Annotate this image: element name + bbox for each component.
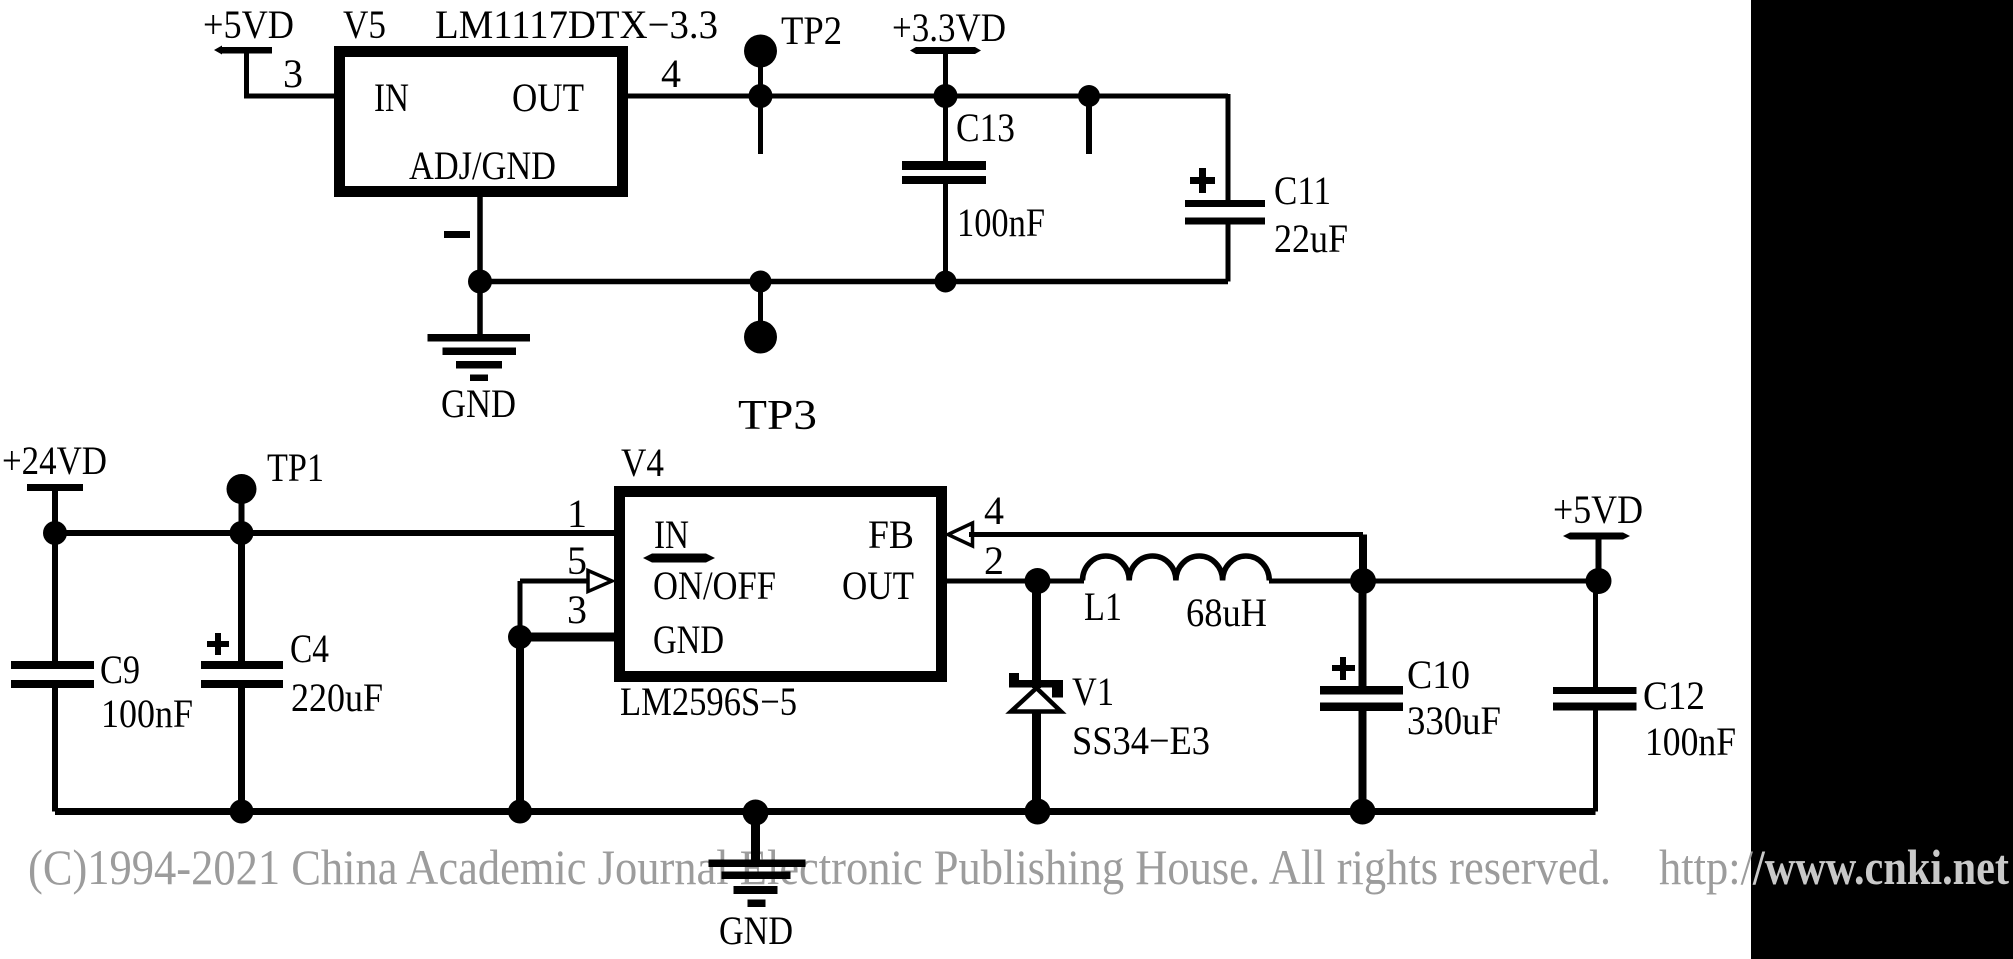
wire pin4 OUT xyxy=(628,94,1228,99)
power +5VD (right) xyxy=(1563,533,1630,582)
svg-text:3: 3 xyxy=(283,51,303,96)
power +3.3VD xyxy=(910,47,981,96)
wire node to +5VD node xyxy=(1363,579,1599,584)
junction ADJ/ground xyxy=(468,270,492,294)
svg-text:C10: C10 xyxy=(1407,652,1470,697)
capacitor C12 xyxy=(1553,581,1637,812)
junction C10 bottom xyxy=(1350,799,1376,825)
svg-text:1: 1 xyxy=(567,491,587,536)
svg-text:100nF: 100nF xyxy=(957,200,1045,245)
IN underline bar xyxy=(643,554,715,563)
testpoint TP1 xyxy=(227,474,257,533)
svg-text:IN: IN xyxy=(654,512,689,557)
labels bottom circuit xyxy=(2,438,1736,953)
svg-text:C11: C11 xyxy=(1274,168,1331,213)
junction +3.3VD node xyxy=(934,84,958,108)
diode V1 SS34 (schottky) xyxy=(1009,581,1063,812)
svg-text:IN: IN xyxy=(374,75,409,120)
arrow pin4 FB xyxy=(948,523,973,546)
svg-text:100nF: 100nF xyxy=(1645,719,1736,764)
labels top circuit xyxy=(203,2,1348,439)
wire pin3 xyxy=(244,94,339,99)
junction C13 bottom xyxy=(935,271,957,293)
svg-text:ADJ/GND: ADJ/GND xyxy=(409,143,556,188)
svg-text:GND: GND xyxy=(653,617,724,662)
junction C4 bottom xyxy=(230,800,254,824)
svg-text:100nF: 100nF xyxy=(101,691,193,736)
converter V4 box xyxy=(620,492,942,677)
power +5VD (top left) xyxy=(214,46,272,97)
svg-text:+3.3VD: +3.3VD xyxy=(892,5,1006,50)
wire FB feedback xyxy=(969,532,1363,537)
svg-text:22uF: 22uF xyxy=(1274,216,1348,261)
junction TP1/C4 xyxy=(230,521,254,545)
ground GND (bottom circuit) xyxy=(709,813,806,908)
stub node on OUT rail xyxy=(1078,85,1100,154)
svg-text:TP1: TP1 xyxy=(267,445,324,490)
svg-text:C9: C9 xyxy=(100,647,140,692)
junction +5VD/C12 xyxy=(1586,568,1612,594)
svg-text:C4: C4 xyxy=(290,626,329,671)
wire pin3 GND xyxy=(520,633,614,642)
ground rail (top circuit) xyxy=(480,279,1228,285)
testpoint TP3 xyxy=(744,282,777,354)
svg-text:(C)1994-2021 China Academic Jo: (C)1994-2021 China Academic Journal Elec… xyxy=(28,839,1611,895)
svg-text:SS34−E3: SS34−E3 xyxy=(1072,718,1210,763)
junction TP2/OUT xyxy=(749,84,773,108)
wire FB corner vertical xyxy=(1359,535,1367,582)
svg-text:FB: FB xyxy=(868,512,914,557)
svg-text:GND: GND xyxy=(441,381,516,426)
capacitor C11 (electrolytic) xyxy=(1185,168,1265,282)
junction pin3 node xyxy=(508,625,532,649)
svg-text:220uF: 220uF xyxy=(291,675,383,720)
wire pin5 ON/OFF xyxy=(520,579,588,584)
svg-text:68uH: 68uH xyxy=(1186,590,1267,635)
wire corner to C11 xyxy=(1226,94,1231,200)
junction GND node xyxy=(743,800,769,826)
arrow pin5 xyxy=(588,571,612,592)
black scan bar right side xyxy=(1751,0,2013,959)
svg-text:ON/OFF: ON/OFF xyxy=(653,563,776,608)
svg-text:4: 4 xyxy=(984,488,1004,533)
junction pin3 bottom xyxy=(508,800,532,824)
svg-text:LM1117DTX−3.3: LM1117DTX−3.3 xyxy=(435,2,718,47)
svg-text:V1: V1 xyxy=(1072,669,1114,714)
input rail wire xyxy=(55,530,614,536)
svg-text:OUT: OUT xyxy=(842,563,914,608)
capacitor C9 xyxy=(11,533,94,812)
minus mark at ADJ xyxy=(444,231,470,238)
svg-text:+24VD: +24VD xyxy=(2,438,107,483)
svg-text:4: 4 xyxy=(661,51,681,96)
testpoint TP2 xyxy=(744,35,777,155)
svg-text:+5VD: +5VD xyxy=(1553,487,1643,532)
wire L1 to node xyxy=(1269,579,1363,584)
svg-text:TP3: TP3 xyxy=(738,393,817,439)
capacitor C10 (electrolytic) xyxy=(1320,581,1403,812)
svg-text:C12: C12 xyxy=(1643,673,1705,718)
ground GND (top circuit) xyxy=(428,282,531,382)
inductor L1 xyxy=(1083,556,1270,581)
wire pin2 OUT xyxy=(947,579,1084,584)
svg-text:3: 3 xyxy=(567,587,587,632)
svg-text:http:/: http:/ xyxy=(1659,839,1753,895)
svg-text:GND: GND xyxy=(719,908,793,953)
svg-text:+5VD: +5VD xyxy=(203,2,294,47)
svg-text:V5: V5 xyxy=(343,2,386,47)
capacitor C4 (electrolytic) xyxy=(201,533,283,812)
svg-text:330uF: 330uF xyxy=(1407,698,1501,743)
junction V1 node xyxy=(1025,568,1051,594)
junction L1/C10/FB xyxy=(1350,568,1376,594)
svg-text:C13: C13 xyxy=(956,105,1015,150)
svg-text:LM2596S−5: LM2596S−5 xyxy=(620,679,797,724)
wire pin3 node to ground rail xyxy=(516,637,524,812)
regulator V5 box xyxy=(340,52,623,192)
svg-text:2: 2 xyxy=(984,538,1004,583)
capacitor C13 xyxy=(902,96,986,282)
svg-text:V4: V4 xyxy=(621,440,664,485)
junction TP3 node xyxy=(750,271,772,293)
svg-text:L1: L1 xyxy=(1084,584,1122,629)
ground rail (bottom circuit) xyxy=(55,808,1596,815)
wire pin5-to-pin3 vertical xyxy=(518,581,523,637)
wire ADJ pin xyxy=(477,192,483,282)
svg-text:TP2: TP2 xyxy=(781,8,842,53)
svg-text:/www.cnki.net: /www.cnki.net xyxy=(1752,839,2009,895)
svg-text:5: 5 xyxy=(567,538,587,583)
junction +24VD/C9 xyxy=(43,521,67,545)
junction V1 bottom xyxy=(1025,799,1051,825)
power +24VD xyxy=(27,484,83,533)
svg-text:OUT: OUT xyxy=(512,75,584,120)
